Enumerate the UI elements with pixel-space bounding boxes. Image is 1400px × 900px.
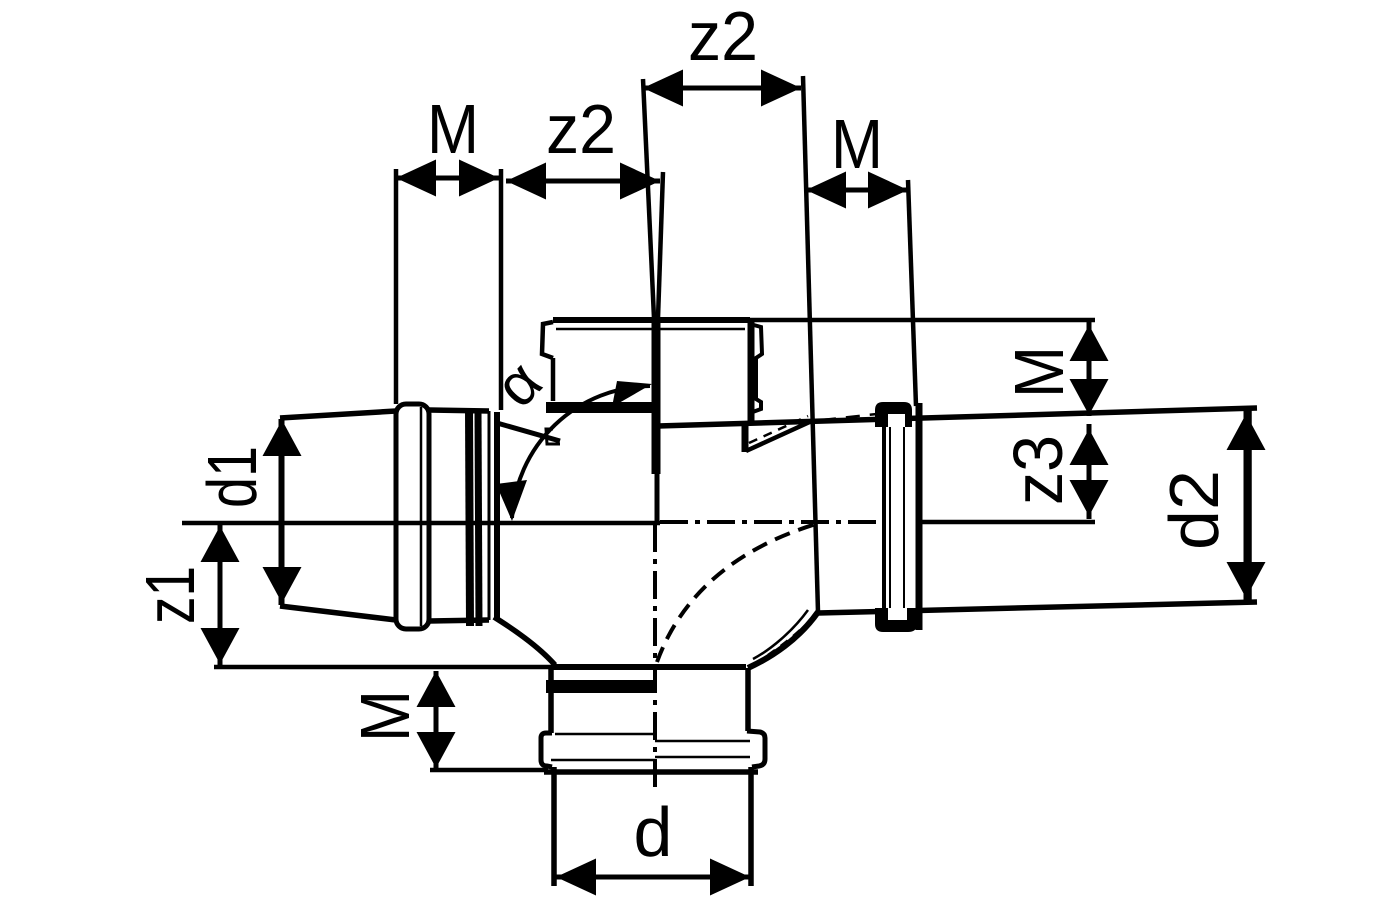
svg-text:z1: z1 [131, 566, 209, 624]
svg-text:z2: z2 [546, 90, 616, 168]
svg-text:d2: d2 [1155, 470, 1233, 550]
svg-text:d1: d1 [193, 446, 271, 508]
svg-text:M: M [427, 90, 479, 168]
svg-text:M: M [831, 105, 883, 183]
svg-text:z3: z3 [999, 435, 1077, 505]
svg-text:z2: z2 [688, 0, 758, 75]
svg-text:M: M [346, 690, 424, 742]
svg-text:d: d [634, 793, 673, 871]
svg-text:M: M [1000, 346, 1078, 398]
